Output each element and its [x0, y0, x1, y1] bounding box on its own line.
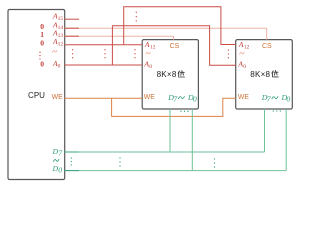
- svg-text:0: 0: [58, 64, 61, 70]
- svg-text:WE: WE: [52, 94, 64, 101]
- U1 tilde: [146, 52, 150, 54]
- memory chip U2 box: [236, 40, 293, 109]
- U1 title CJK wei glyph: [178, 71, 184, 78]
- svg-text:0: 0: [243, 64, 246, 70]
- svg-text:0: 0: [40, 39, 44, 48]
- ellipsis data bus col mid: [119, 157, 120, 166]
- tilde CPU address names: [52, 50, 57, 52]
- wire A12 CPU to U1: [65, 44, 143, 46]
- svg-text:15: 15: [58, 16, 64, 22]
- wire U2 D7 drop: [264, 109, 266, 152]
- pin stub A14: [65, 27, 80, 29]
- svg-text:0: 0: [58, 165, 62, 174]
- svg-text:WE: WE: [238, 94, 250, 101]
- ellipsis U1 data drops: [180, 111, 188, 112]
- wire U1 D7 drop: [169, 109, 171, 152]
- ellipsis data bus col right: [214, 158, 215, 167]
- ellipsis data bus col near CPU: [71, 157, 72, 165]
- svg-text:CPU: CPU: [28, 91, 45, 100]
- wire D7 bus: [65, 151, 265, 153]
- U1 data tilde: [178, 96, 184, 98]
- pin stub A13: [65, 35, 80, 37]
- ellipsis address wires col near CPU: [72, 49, 73, 58]
- U2 title CJK wei glyph: [272, 70, 278, 77]
- CPU box: [8, 10, 65, 180]
- svg-text:CS: CS: [262, 43, 272, 50]
- wire A0 CPU to U1: [65, 64, 143, 66]
- svg-text:0: 0: [40, 60, 44, 69]
- svg-text:CS: CS: [170, 43, 180, 50]
- svg-text:0: 0: [193, 95, 197, 104]
- tilde CPU data names: [54, 159, 59, 161]
- wire D0 bus: [65, 170, 287, 172]
- svg-text:12: 12: [244, 44, 250, 50]
- wire U1 D0 drop: [191, 109, 193, 171]
- svg-text:8K×8: 8K×8: [250, 70, 270, 79]
- ellipsis U2 data drops: [273, 110, 281, 111]
- U2 tilde: [240, 52, 244, 54]
- ellipsis top routed wires: [136, 12, 137, 22]
- pin stub D0: [65, 170, 80, 172]
- ellipsis address wires col mid: [104, 49, 105, 58]
- ellipsis CPU values column: [39, 52, 40, 60]
- svg-text:12: 12: [58, 42, 64, 48]
- svg-text:0: 0: [149, 64, 152, 70]
- pin stub D7: [65, 151, 80, 153]
- svg-text:WE: WE: [144, 94, 156, 101]
- wire U2 D0 drop: [285, 109, 287, 171]
- svg-text:0: 0: [286, 95, 290, 104]
- svg-text:14: 14: [58, 25, 64, 31]
- wire A14 light continuation to U2 CS pin: [65, 28, 267, 39]
- wire A0 branch routed over top to U2: [112, 26, 235, 65]
- wire WE CPU to U1: [65, 97, 143, 99]
- svg-text:12: 12: [150, 44, 156, 50]
- wire WE branch routed under U1 to U2: [112, 98, 236, 116]
- pin stub A15: [65, 18, 80, 20]
- U2 data tilde: [272, 97, 278, 99]
- ellipsis address wires col near U1: [134, 49, 135, 58]
- wire A13 light continuation to U1 CS pin: [65, 36, 174, 39]
- ellipsis address wires at U2: [228, 50, 229, 59]
- svg-text:13: 13: [58, 33, 64, 39]
- memory chip U1 box: [142, 40, 198, 109]
- wire A12 branch routed over top to U2: [124, 7, 236, 45]
- svg-text:8K×8: 8K×8: [157, 70, 177, 79]
